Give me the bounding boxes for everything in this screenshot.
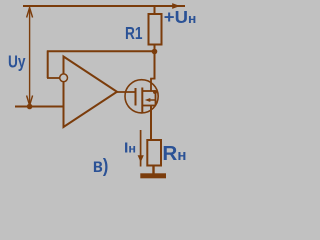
wire: R1 bottom lead down to drain jog (154, 45, 156, 80)
wire: feedback vertical drop at left (47, 51, 49, 79)
junction dot at Uy / input wire (27, 104, 33, 110)
corner dot at drain stub / right vertical (153, 90, 157, 94)
resistor R1 (149, 14, 162, 45)
right vertical tying substrate/source (155, 91, 157, 106)
op-amp U1 triangle (64, 57, 118, 128)
wire: Rн bottom lead to ground (152, 166, 154, 174)
source stub of VT1 (143, 105, 156, 107)
ground bar (140, 173, 166, 178)
voltage arrow Uy (double-headed, between top rail and lower input wire) (27, 8, 33, 106)
current arrow Iн (140, 130, 142, 167)
transistor VT1 MOSFET body circle (125, 80, 158, 113)
svg-text:Iн: Iн (124, 139, 136, 156)
substrate lead with arrow (points to channel) (149, 99, 156, 101)
arrowhead of +Un rail (points right) (172, 3, 180, 9)
drain stub of VT1 (143, 90, 156, 92)
gate bar of VT1 (135, 88, 137, 106)
wire: lower input wire to op-amp non-inverting input (15, 106, 64, 108)
resistor Rн (load) (147, 140, 161, 166)
channel bar of VT1 (141, 88, 143, 113)
wire: op-amp output to MOSFET gate (117, 91, 136, 93)
drain riser inside circle (150, 79, 152, 91)
wire: +Un top supply rail (23, 5, 185, 7)
drain jog to R1 lead (150, 78, 154, 80)
inverting input bubble of op-amp (60, 74, 68, 82)
wire: source lead down to Rn (150, 106, 152, 141)
wire: feedback into inverting bubble (47, 77, 60, 79)
svg-text:R1: R1 (125, 23, 143, 43)
wire: feedback from drain node, horizontal run (47, 50, 155, 52)
junction dot at feedback / R1 bottom node (152, 49, 158, 55)
wire: R1 top lead to rail (154, 6, 156, 14)
svg-text:Uy: Uy (8, 51, 26, 71)
svg-text:в): в) (93, 156, 109, 177)
